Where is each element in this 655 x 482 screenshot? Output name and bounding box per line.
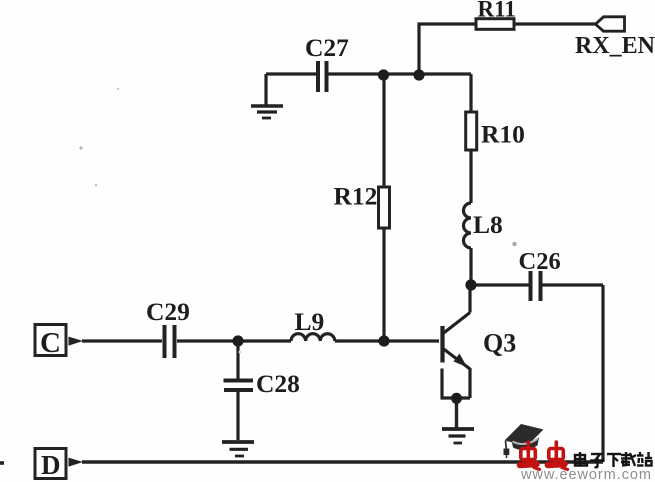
svg-text:R11: R11 — [478, 0, 516, 22]
svg-text:D: D — [41, 450, 61, 480]
svg-text:RX_EN: RX_EN — [575, 33, 655, 59]
svg-text:www.eeworm.com: www.eeworm.com — [520, 467, 652, 482]
svg-text:C29: C29 — [146, 297, 190, 326]
svg-text:C27: C27 — [305, 33, 349, 62]
svg-text:C28: C28 — [256, 369, 300, 398]
svg-text:R12: R12 — [334, 182, 378, 211]
svg-text:R10: R10 — [481, 120, 525, 149]
svg-text:C26: C26 — [519, 248, 561, 275]
svg-text:L8: L8 — [473, 210, 503, 239]
svg-text:L9: L9 — [295, 307, 325, 336]
svg-text:Q3: Q3 — [483, 329, 516, 358]
svg-text:C: C — [40, 327, 61, 359]
